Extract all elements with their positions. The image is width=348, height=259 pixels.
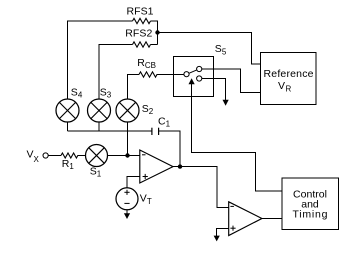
svg-text:RFS1: RFS1: [127, 5, 154, 17]
svg-text:V: V: [278, 80, 285, 92]
svg-text:Reference: Reference: [264, 68, 314, 80]
svg-text:Timing: Timing: [293, 208, 328, 220]
svg-text:R: R: [286, 84, 292, 93]
svg-text:RFS2: RFS2: [125, 27, 152, 39]
